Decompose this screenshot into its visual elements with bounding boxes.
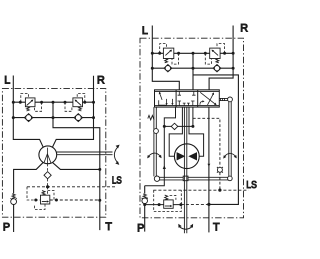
suction check C4 (diamond+ball) xyxy=(213,65,221,72)
inlet relief valve (bottom) xyxy=(164,195,174,208)
T flow arrow xyxy=(208,164,211,167)
wire P gallery horizontal xyxy=(164,125,193,127)
P feed flow arrow xyxy=(163,165,166,169)
relief drain dashed to T xyxy=(50,199,100,201)
left linkage double line xyxy=(154,107,156,176)
pilot dashed V3 bottom xyxy=(172,53,179,64)
svg-text:L: L xyxy=(142,25,148,37)
shock relief valve V4 (right) xyxy=(210,48,220,63)
inlet check valve on P xyxy=(142,194,148,204)
svg-text:P: P xyxy=(3,221,10,233)
wire valve port right of gallery xyxy=(192,107,194,126)
metering motor circle xyxy=(39,146,57,164)
svg-text:LS: LS xyxy=(246,180,257,191)
steering shaft vertical (double) xyxy=(184,107,186,233)
link bar pivot left xyxy=(154,176,159,181)
shock relief valve V3 (left) xyxy=(163,48,173,63)
svg-text:L: L xyxy=(4,75,10,87)
svg-text:T: T xyxy=(213,222,220,234)
pilot relief spring-side dashed xyxy=(47,187,49,195)
wire drain bypass to T xyxy=(193,75,238,205)
gerotor triangle left xyxy=(177,152,186,160)
port R line xyxy=(209,26,233,90)
LS check ball xyxy=(217,167,223,173)
svg-text:T: T xyxy=(105,221,112,233)
wire rail2 (suction checks) xyxy=(152,67,233,69)
pilot line (dashed) V2 top xyxy=(77,93,85,102)
port R line xyxy=(52,76,93,147)
node dots on T line xyxy=(98,168,101,202)
wire P port riser xyxy=(144,186,146,194)
steering wheel arrow bottom xyxy=(178,224,193,230)
valve-wheel link (right) xyxy=(219,98,227,100)
wire motor loop right xyxy=(189,107,204,156)
port L line xyxy=(13,76,43,148)
spool centre section blocked ports xyxy=(178,91,196,105)
spool centering spring xyxy=(148,115,154,120)
suction check C3 (diamond+ball) xyxy=(164,65,172,72)
wire P port xyxy=(13,205,15,233)
right linkage double line xyxy=(229,102,231,177)
relief under-bracket dashed xyxy=(35,204,45,210)
pilot line (dashed) V1 top xyxy=(21,93,29,102)
relief top-right dashed stub xyxy=(170,195,176,200)
LS relief pilot drop (dashed) xyxy=(27,187,41,200)
wire motor loop left xyxy=(169,107,182,156)
LS pilot dashed from gallery xyxy=(193,118,220,167)
pilot line (dashed) V2 bottom xyxy=(65,102,72,111)
link bar pivot right xyxy=(228,176,233,181)
svg-text:LS: LS xyxy=(112,176,122,187)
wire P feed riser xyxy=(145,126,165,185)
wire rail2 (suction check line) xyxy=(13,117,93,119)
shock relief valve V2 (right) xyxy=(73,98,83,111)
linkage pivot circle top xyxy=(154,129,159,134)
wire P gallery (valve port step) xyxy=(164,107,175,126)
wire rail1 (shock valves) xyxy=(152,52,233,54)
gerotor triangle right xyxy=(188,152,197,160)
right rotation arrow xyxy=(223,153,237,158)
feedback link bar (double) xyxy=(157,177,230,180)
svg-text:R: R xyxy=(97,74,105,86)
spool left section arrows xyxy=(159,92,174,106)
svg-text:R: R xyxy=(240,23,248,35)
relief connection line xyxy=(145,204,181,206)
node dots rails xyxy=(151,52,235,70)
steering shaft (double line) xyxy=(57,152,113,155)
enclosure border (dash-dot) left unit xyxy=(2,89,105,218)
relief dashed box xyxy=(154,190,182,211)
svg-text:P: P xyxy=(137,223,144,235)
wire motor bottom-right to T xyxy=(52,162,100,169)
shaft-bar crossing block xyxy=(183,176,188,181)
directional spool valve body xyxy=(155,90,220,107)
wire T return xyxy=(208,107,210,232)
LS rail dashed xyxy=(153,189,248,191)
node junction dots rail2 xyxy=(12,116,95,119)
LS pilot rail (dashed) xyxy=(27,186,115,188)
suction check valve C2 (diamond+ball) xyxy=(74,114,82,122)
pilot dashed V4 top xyxy=(217,44,225,54)
left rotation arrow xyxy=(147,153,161,158)
gerotor motor circle xyxy=(174,144,199,169)
node junction dots rail1 xyxy=(12,101,95,104)
LS check valve (diamond below motor) xyxy=(47,164,49,172)
wire rail1 (shock valve line) xyxy=(13,101,93,103)
enclosure border (dash-dot) right unit xyxy=(140,38,244,218)
wire P port xyxy=(144,204,146,232)
wire mid gallery drop to valve xyxy=(192,53,194,90)
suction check valve C1 (diamond+ball) xyxy=(24,114,32,122)
port L line xyxy=(152,26,179,90)
spool right section crossed arrows xyxy=(200,92,217,105)
wire tank drain path (rail1 mid to T line) xyxy=(53,102,100,230)
wire motor bottom-left to P xyxy=(14,162,44,193)
shock relief valve V1 (left) xyxy=(25,98,35,111)
steering wheel curved arrow xyxy=(114,145,119,165)
pilot dashed V3 top xyxy=(160,44,167,54)
inlet check valve on P xyxy=(11,194,17,205)
motor internal arrow xyxy=(44,148,51,164)
pilot dashed V4 bottom xyxy=(205,53,211,64)
gallery check diamond xyxy=(171,123,178,129)
pilot relief valve (bottom) xyxy=(41,191,50,204)
pilot line (dashed) V1 bottom xyxy=(35,102,42,111)
